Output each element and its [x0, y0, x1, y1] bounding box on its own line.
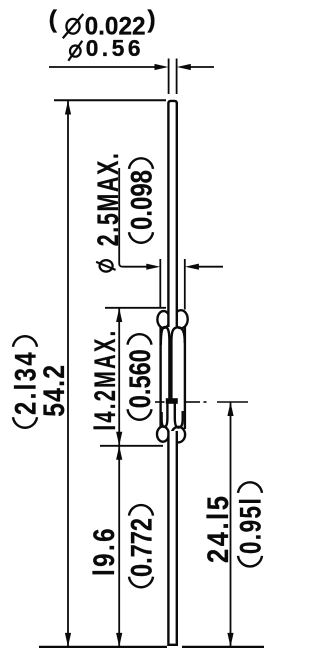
label 54.2 rotated [38, 364, 71, 417]
label (0.098) rotated [126, 158, 159, 242]
svg-text:): ) [147, 6, 155, 34]
extension line 14.2 bottom / 19.6 top [100, 445, 163, 447]
svg-text:0.95l: 0.95l [235, 497, 268, 554]
label (phi0.022) [49, 6, 156, 41]
extension line 54.2 top [54, 99, 166, 101]
glass capsule tube wall right [184, 325, 186, 429]
label (0.560) rotated [124, 334, 157, 420]
dimension line phi2.5 right arrow [185, 264, 223, 270]
label 19.6 rotated [88, 526, 121, 576]
svg-text:54.2: 54.2 [38, 364, 71, 417]
extension line bottom right [182, 646, 264, 648]
glass seal bead top [157, 310, 187, 328]
glass seal bead bottom [157, 427, 185, 443]
svg-text:0.56: 0.56 [86, 35, 143, 61]
extension line bottom left [39, 646, 167, 648]
dimension line 24.15 with arrows [227, 402, 233, 647]
extension line phi2.5 right [184, 259, 186, 310]
svg-text:l4.2MAX.: l4.2MAX. [89, 329, 122, 431]
svg-text:0.560: 0.560 [124, 349, 157, 408]
capsule inner dome arch top-left with upper reed blade [161, 327, 170, 399]
svg-text:l9.6: l9.6 [88, 526, 121, 576]
dimension line 19.6 with arrows [116, 446, 122, 647]
svg-text:24.l5: 24.l5 [202, 494, 235, 564]
label (0.951) rotated [235, 482, 268, 566]
svg-text:0.772: 0.772 [126, 518, 159, 577]
capsule inner dome arch top-right [171, 327, 184, 399]
lead wire upper [168, 101, 176, 327]
dimension line phi0.56 left with arrow [49, 64, 168, 70]
extension line 14.2 top [105, 307, 166, 309]
dimension line 54.2 with arrows [65, 101, 71, 647]
label 14.2MAX rotated [89, 329, 122, 431]
svg-text:(: ( [49, 6, 58, 34]
lead wire lower [168, 431, 176, 645]
svg-text:2.5MAX.: 2.5MAX. [92, 151, 125, 246]
label 24.15 rotated [202, 494, 235, 564]
dimension line phi0.56 right with arrow [177, 64, 214, 70]
lower reed blade left with dome arch [162, 402, 168, 427]
lower reed blade right with dome arch [175, 402, 183, 428]
extension line wire top right (phi0.56) [176, 59, 178, 95]
dimension leader phi2.5 with arrow [119, 168, 160, 270]
extension line wire top left (phi0.56) [168, 59, 170, 95]
centerline dash-dot [155, 401, 248, 403]
label phi0.56 [68, 35, 142, 61]
label (2.134) rotated [10, 336, 43, 427]
dimension line 14.2 with arrows [116, 308, 122, 446]
label phi2.5MAX rotated [92, 151, 125, 271]
glass capsule tube wall left [159, 325, 161, 428]
reed contact overlap [166, 398, 178, 404]
svg-text:0.098: 0.098 [126, 170, 159, 230]
label (0.772) rotated [126, 505, 159, 587]
extension line phi2.5 left [159, 259, 161, 308]
